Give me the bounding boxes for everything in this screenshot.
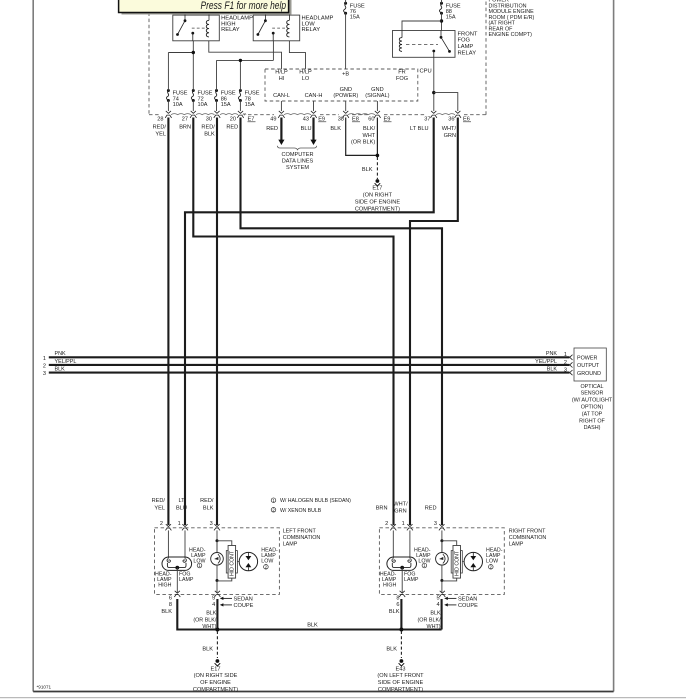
junction: left lamp ground to bus xyxy=(215,628,219,632)
svg-text:60: 60 xyxy=(368,117,374,123)
headlamp low relay xyxy=(253,13,333,41)
svg-text:YEL/PPL: YEL/PPL xyxy=(55,359,77,365)
svg-text:SYSTEM: SYSTEM xyxy=(286,165,309,171)
svg-text:HID CONT: HID CONT xyxy=(455,550,461,576)
svg-text:BLK: BLK xyxy=(55,367,66,373)
legend halogen/xenon xyxy=(271,498,276,503)
svg-text:ENGINE COMPT): ENGINE COMPT) xyxy=(489,32,533,38)
svg-text:BLK: BLK xyxy=(307,623,318,629)
wire: low relay output to fuses 86,78 xyxy=(217,59,274,61)
wire BRN pin27 routed to right lamp pin2 xyxy=(193,118,393,526)
svg-text:BLK: BLK xyxy=(389,609,400,615)
svg-text:(AT TOP: (AT TOP xyxy=(582,411,603,417)
fuse 72 10A xyxy=(191,89,212,108)
svg-text:W/ XENON BULB: W/ XENON BULB xyxy=(280,508,322,514)
junction: BLK grounds join xyxy=(376,154,380,158)
svg-text:4: 4 xyxy=(212,602,215,608)
svg-text:FR: FR xyxy=(398,70,405,76)
svg-text:BLK: BLK xyxy=(362,167,373,173)
svg-text:LAMP: LAMP xyxy=(283,541,298,547)
svg-text:5: 5 xyxy=(212,596,215,602)
wire RED/YEL pin28 to left lamp pin2 xyxy=(167,118,169,526)
dashed BLK to E17 xyxy=(376,157,378,179)
PDM E/R module dashed outline right edge xyxy=(485,2,487,115)
wire: high relay output to fuses 74,72 xyxy=(168,52,193,54)
svg-text:YEL: YEL xyxy=(155,131,166,137)
svg-text:LEFT FRONT: LEFT FRONT xyxy=(283,528,317,534)
fuse 88 15A xyxy=(439,2,460,21)
svg-text:BLK: BLK xyxy=(430,611,441,617)
svg-text:RELAY: RELAY xyxy=(302,27,321,33)
page frame right border xyxy=(613,0,615,692)
svg-text:(ON LEFT FRONT: (ON LEFT FRONT xyxy=(377,673,424,679)
svg-text:(SIGNAL): (SIGNAL) xyxy=(365,93,389,99)
svg-text:10A: 10A xyxy=(198,102,208,108)
svg-text:BLK: BLK xyxy=(547,367,558,373)
svg-text:15A: 15A xyxy=(446,15,456,21)
fuse 74 10A xyxy=(166,89,187,108)
junction: high relay output / fuse 74+72 feed xyxy=(192,51,195,54)
svg-text:BLK: BLK xyxy=(386,647,397,653)
svg-text:H/LP: H/LP xyxy=(275,70,288,76)
svg-text:W/ HALOGEN BULB (SEDAN): W/ HALOGEN BULB (SEDAN) xyxy=(280,498,351,504)
svg-text:SENSOR: SENSOR xyxy=(581,391,604,397)
svg-text:E43: E43 xyxy=(396,666,406,672)
svg-text:OPTION): OPTION) xyxy=(581,405,604,411)
svg-text:GROUND: GROUND xyxy=(577,371,601,377)
wire: pin 38 BLK to ground junction xyxy=(346,118,378,156)
svg-text:LT BLU: LT BLU xyxy=(410,126,428,132)
svg-text:RED/: RED/ xyxy=(201,125,215,131)
svg-text:CAN-L: CAN-L xyxy=(273,93,290,99)
svg-text:BLU: BLU xyxy=(176,505,187,511)
ground E17 (upper) xyxy=(376,179,380,183)
svg-text:BRN: BRN xyxy=(179,125,191,131)
svg-text:BLK: BLK xyxy=(161,609,172,615)
svg-text:BLK: BLK xyxy=(203,505,214,511)
fuse 86 15A xyxy=(214,89,235,108)
ground bus BLK wire xyxy=(177,599,441,630)
svg-text:PNK: PNK xyxy=(546,351,557,357)
PDM E/R module dashed outline left edge xyxy=(148,13,150,115)
svg-text:RIGHT FRONT: RIGHT FRONT xyxy=(509,528,546,534)
CPU dashed box xyxy=(265,69,418,101)
junction: low relay output / fuse 78 feed xyxy=(239,59,242,62)
svg-text:YEL/PPL: YEL/PPL xyxy=(535,359,557,365)
sensor wire 1 PNK xyxy=(49,356,570,358)
dashed BLK to E43 xyxy=(400,631,402,658)
connector row pin symbols xyxy=(166,111,171,113)
svg-text:15A: 15A xyxy=(221,102,231,108)
svg-text:OUTPUT: OUTPUT xyxy=(577,363,600,369)
wires: CPU outputs to connector row xyxy=(280,101,282,111)
svg-text:+B: +B xyxy=(342,72,349,78)
svg-text:FOG: FOG xyxy=(396,76,408,82)
svg-text:1: 1 xyxy=(43,356,46,362)
svg-text:BLK: BLK xyxy=(204,131,215,137)
svg-text:8: 8 xyxy=(396,596,399,602)
svg-text:SEDAN: SEDAN xyxy=(458,597,477,603)
svg-text:CAN-H: CAN-H xyxy=(305,93,323,99)
tooltip press F1 xyxy=(119,0,292,15)
wire: fog relay output to pins 37,36 xyxy=(433,57,435,111)
svg-text:GRN: GRN xyxy=(444,133,456,139)
svg-text:RED: RED xyxy=(266,126,278,132)
svg-text:37: 37 xyxy=(424,117,430,123)
svg-text:COMPUTER: COMPUTER xyxy=(281,152,313,158)
svg-text:(ON RIGHT: (ON RIGHT xyxy=(363,193,393,199)
svg-text:COMBINATION: COMBINATION xyxy=(509,535,547,541)
svg-text:BLK/: BLK/ xyxy=(363,126,376,132)
sensor wire 2 YEL/PPL xyxy=(49,364,570,366)
fuse 78 15A xyxy=(238,89,259,108)
svg-text:3: 3 xyxy=(43,371,46,377)
svg-text:49: 49 xyxy=(270,117,276,123)
window bottom edge line xyxy=(0,697,686,699)
PDM connector dashed row xyxy=(149,114,160,116)
headlamp high relay xyxy=(173,13,253,41)
junction: right lamp ground to bus xyxy=(399,628,403,632)
svg-text:LAMP: LAMP xyxy=(404,577,419,583)
svg-text:FRONT: FRONT xyxy=(458,31,478,37)
svg-text:WHT: WHT xyxy=(362,133,375,139)
svg-text:(POWER): (POWER) xyxy=(333,93,358,99)
svg-text:(OR BLK/: (OR BLK/ xyxy=(193,617,217,623)
svg-text:20: 20 xyxy=(230,117,236,123)
svg-text:BLK: BLK xyxy=(206,611,217,617)
svg-text:DASH): DASH) xyxy=(584,425,601,431)
svg-text:6: 6 xyxy=(396,602,399,608)
front fog lamp relay xyxy=(393,31,478,58)
svg-text:15A: 15A xyxy=(350,15,360,21)
svg-text:27: 27 xyxy=(182,117,188,123)
sensor connector chevrons xyxy=(570,355,573,360)
svg-text:3: 3 xyxy=(564,368,567,374)
ground E43 (right lamp) xyxy=(400,659,404,663)
svg-text:LT: LT xyxy=(178,498,185,504)
wire RED pin20 routed to right lamp pin3 xyxy=(241,118,443,526)
svg-text:2: 2 xyxy=(564,360,567,366)
svg-text:LAMP: LAMP xyxy=(509,541,524,547)
svg-text:15A: 15A xyxy=(245,102,255,108)
svg-text:36: 36 xyxy=(448,117,454,123)
svg-text:SEDAN: SEDAN xyxy=(234,597,253,603)
svg-text:8: 8 xyxy=(169,602,172,608)
ground E17 (left lamp) xyxy=(216,659,220,663)
svg-text:2: 2 xyxy=(385,521,388,527)
wire: pin 60 BLK/WHT down xyxy=(376,118,378,156)
svg-text:3: 3 xyxy=(434,521,437,527)
page frame left border xyxy=(32,0,34,692)
junction: fog relay output split to pins 37/36 xyxy=(432,91,435,94)
junction: fuse 88 feed to fog relay coil and contact xyxy=(440,19,443,22)
wire LT BLU pin37 routed to left lamp pin1 xyxy=(185,118,434,526)
svg-text:COUPE: COUPE xyxy=(234,603,254,609)
wire RED/BLK pin30 to left lamp pin3 xyxy=(216,118,218,526)
svg-text:YEL: YEL xyxy=(154,505,165,511)
svg-text:(W/ AUTOLIGHT: (W/ AUTOLIGHT xyxy=(572,398,613,404)
svg-text:E17: E17 xyxy=(372,186,382,192)
svg-text:5: 5 xyxy=(436,596,439,602)
svg-text:E17: E17 xyxy=(211,666,221,672)
svg-text:LOW: LOW xyxy=(486,559,498,565)
svg-text:COUPE: COUPE xyxy=(458,603,478,609)
wires: fuses to connector row xyxy=(167,101,169,112)
svg-text:WHT/: WHT/ xyxy=(442,126,457,132)
svg-text:H/LP: H/LP xyxy=(299,70,312,76)
right front combination lamp xyxy=(379,524,504,597)
svg-text:BLK: BLK xyxy=(330,126,341,132)
svg-text:RED/: RED/ xyxy=(153,125,167,131)
svg-text:LO: LO xyxy=(302,76,310,82)
svg-text:HIGH: HIGH xyxy=(383,582,396,588)
svg-text:SIDE OF ENGINE: SIDE OF ENGINE xyxy=(378,680,424,686)
svg-text:LOW: LOW xyxy=(261,559,273,565)
svg-text:(OR BLK/: (OR BLK/ xyxy=(418,617,442,623)
optical sensor box xyxy=(574,348,606,381)
svg-text:PNK: PNK xyxy=(55,351,66,357)
svg-text:4: 4 xyxy=(436,602,439,608)
wire: fuse 88 to fog relay xyxy=(441,0,443,3)
wire: high relay coil to CPU H/LP HI xyxy=(209,41,282,69)
wire: fuse 76 to CPU +B xyxy=(345,0,347,3)
sensor wire 3 BLK xyxy=(49,372,570,374)
svg-text:CPU: CPU xyxy=(420,69,432,75)
svg-text:SIDE OF ENGINE: SIDE OF ENGINE xyxy=(355,200,401,206)
svg-text:GND: GND xyxy=(371,87,383,93)
svg-text:FOG: FOG xyxy=(458,38,471,44)
svg-text:COMPARTMENT): COMPARTMENT) xyxy=(378,687,423,693)
svg-text:30: 30 xyxy=(206,117,212,123)
svg-text:HI: HI xyxy=(279,76,285,82)
svg-text:HID CONT: HID CONT xyxy=(230,550,236,576)
svg-text:43: 43 xyxy=(303,117,309,123)
svg-text:RELAY: RELAY xyxy=(458,51,477,57)
computer data lines arrows xyxy=(280,118,282,141)
svg-text:RIGHT OF: RIGHT OF xyxy=(579,418,605,424)
svg-text:6: 6 xyxy=(169,596,172,602)
svg-text:Press F1 for more help: Press F1 for more help xyxy=(201,0,287,12)
svg-text:LAMP: LAMP xyxy=(179,577,194,583)
page frame bottom border xyxy=(33,691,613,693)
svg-text:POWER: POWER xyxy=(577,356,597,362)
svg-text:*91071: *91071 xyxy=(37,685,52,690)
svg-text:RED/: RED/ xyxy=(200,498,214,504)
svg-text:1: 1 xyxy=(402,521,405,527)
svg-text:2: 2 xyxy=(160,521,163,527)
svg-text:WHT/: WHT/ xyxy=(393,502,408,508)
svg-text:LAMP: LAMP xyxy=(458,44,474,50)
svg-text:RELAY: RELAY xyxy=(221,27,240,33)
left front combination lamp xyxy=(155,524,280,597)
svg-text:COMPARTMENT): COMPARTMENT) xyxy=(193,687,238,693)
svg-text:BLU: BLU xyxy=(301,126,312,132)
wire WHT/GRN pin36 routed to right lamp pin1 xyxy=(410,118,458,526)
svg-text:COMBINATION: COMBINATION xyxy=(283,535,321,541)
fuse 76 15A xyxy=(344,2,365,21)
svg-text:1: 1 xyxy=(564,352,567,358)
brace xyxy=(277,146,316,150)
svg-text:(OR BLK): (OR BLK) xyxy=(351,140,375,146)
svg-text:GRN: GRN xyxy=(394,509,406,515)
wire: low relay coil to CPU H/LP LO xyxy=(289,41,305,69)
svg-text:2: 2 xyxy=(43,363,46,369)
svg-text:(ON RIGHT SIDE: (ON RIGHT SIDE xyxy=(194,673,238,679)
svg-text:DATA LINES: DATA LINES xyxy=(282,158,314,164)
svg-text:BRN: BRN xyxy=(376,506,388,512)
svg-text:28: 28 xyxy=(157,117,163,123)
svg-text:RED/: RED/ xyxy=(152,498,166,504)
svg-text:RED: RED xyxy=(425,506,437,512)
svg-text:GND: GND xyxy=(340,87,352,93)
svg-text:38: 38 xyxy=(338,117,344,123)
svg-text:3: 3 xyxy=(210,521,213,527)
svg-text:10A: 10A xyxy=(173,102,183,108)
svg-text:OF ENGINE: OF ENGINE xyxy=(200,680,231,686)
svg-text:RED: RED xyxy=(226,125,238,131)
svg-text:OPTICAL: OPTICAL xyxy=(580,384,603,390)
svg-text:1: 1 xyxy=(178,521,181,527)
svg-text:HIGH: HIGH xyxy=(158,582,171,588)
svg-text:BLK: BLK xyxy=(202,647,213,653)
dashed BLK to E17 lower xyxy=(216,631,218,658)
